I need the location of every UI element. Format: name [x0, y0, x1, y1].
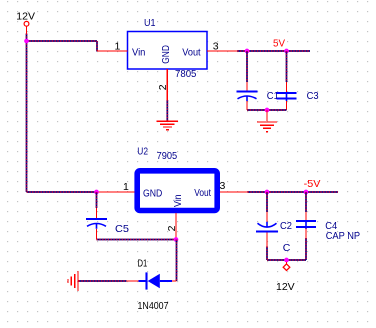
- wire bottom rail C2-C4: [267, 259, 306, 261]
- svg-text:C2: C2: [280, 220, 292, 232]
- svg-text:12V: 12V: [276, 281, 295, 293]
- junction at ground tap: [265, 108, 270, 113]
- junction at C2 branch: [265, 190, 270, 195]
- svg-text:D1: D1: [138, 258, 148, 270]
- capacitor C2 (polarized, inverted): [256, 212, 292, 254]
- svg-text:C5: C5: [115, 223, 129, 235]
- svg-text:1N4007: 1N4007: [138, 300, 169, 312]
- svg-text:2: 2: [157, 84, 169, 90]
- wire down to C4: [305, 192, 307, 212]
- svg-text:C: C: [283, 242, 291, 254]
- wire U1 output rail 5V: [237, 50, 310, 52]
- svg-text:1: 1: [123, 181, 129, 193]
- junction at 12V port corner: [24, 39, 29, 44]
- ground (earth, rotated) left of D1: [68, 271, 78, 291]
- svg-text:-5V: -5V: [304, 178, 321, 190]
- wire down to C3: [286, 51, 288, 82]
- U1 pin 1 (Vin): [97, 41, 128, 53]
- wire junction down to diode: [176, 240, 178, 282]
- regulator U1 7805: [97, 17, 237, 100]
- svg-text:GND: GND: [160, 45, 172, 64]
- svg-text:2: 2: [166, 225, 178, 231]
- svg-text:12V: 12V: [16, 11, 35, 23]
- regulator U2 7905: [97, 145, 248, 239]
- U1 pin 2 (GND): [157, 69, 169, 100]
- wire U1 pin2 to ground: [166, 100, 168, 121]
- wire left vertical rail 12V: [26, 41, 28, 192]
- capacitor C4 CAP NP: [296, 212, 360, 242]
- junction at C1 branch: [245, 49, 250, 54]
- U2 pin 1 (GND): [97, 181, 135, 193]
- svg-text:Vout: Vout: [182, 47, 200, 59]
- svg-text:7805: 7805: [175, 68, 197, 80]
- wire top horizontal to U1 pin 1: [27, 40, 98, 42]
- capacitor C5 (polarized): [86, 208, 129, 240]
- svg-text:C1: C1: [267, 90, 279, 102]
- wire down to C5: [96, 192, 98, 208]
- svg-text:CAP NP: CAP NP: [326, 230, 360, 242]
- net label -5V: [304, 178, 321, 190]
- junction at U2 pin2: [174, 237, 179, 242]
- svg-text:U1: U1: [144, 17, 156, 29]
- junction at bottom port: [284, 258, 289, 263]
- svg-text:1: 1: [115, 41, 121, 53]
- ground (earth) below C1/C3: [257, 110, 277, 132]
- svg-text:7905: 7905: [157, 150, 178, 162]
- svg-text:C3: C3: [307, 90, 319, 102]
- capacitor C1 (polarized): [237, 82, 279, 110]
- svg-text:3: 3: [213, 41, 219, 53]
- wire C2 lower: [266, 247, 268, 261]
- U2 pin 2 (Vin): [166, 213, 178, 240]
- capacitor C3: [277, 82, 319, 110]
- svg-text:Vin: Vin: [132, 47, 146, 59]
- wire bottom rail C1-C3: [247, 109, 287, 111]
- wire from 12V port to junction: [26, 34, 28, 42]
- wire C4 lower: [305, 238, 307, 260]
- wire C5 bottom to U2 pin2 junction: [97, 239, 177, 241]
- diode D1 1N4007: [127, 258, 177, 313]
- ground (earth) below U1 pin 2: [157, 121, 179, 130]
- svg-text:GND: GND: [143, 187, 163, 199]
- wire short vertical step at x=97: [96, 41, 98, 52]
- wire U2 output rail -5V: [248, 191, 339, 193]
- svg-text:U2: U2: [137, 145, 148, 157]
- net label 5V: [273, 38, 285, 50]
- wire down to C1: [246, 51, 248, 82]
- wire down to C2: [266, 192, 268, 212]
- U2 pin 3 (Vout): [220, 180, 248, 192]
- junction at C4 branch: [304, 190, 309, 195]
- svg-text:Vout: Vout: [194, 187, 211, 199]
- svg-text:3: 3: [220, 180, 226, 192]
- junction at C5 tap: [94, 190, 99, 195]
- wire ground to diode anode: [79, 280, 127, 282]
- svg-text:Vin: Vin: [172, 194, 184, 207]
- junction at C3 branch: [284, 49, 289, 54]
- svg-text:5V: 5V: [273, 38, 285, 50]
- U1 pin 3 (Vout): [207, 41, 237, 53]
- wire left rail to U2 pin1: [27, 191, 97, 193]
- power port 12V (top left): [16, 11, 35, 35]
- power port 12V (bottom): [276, 262, 295, 293]
